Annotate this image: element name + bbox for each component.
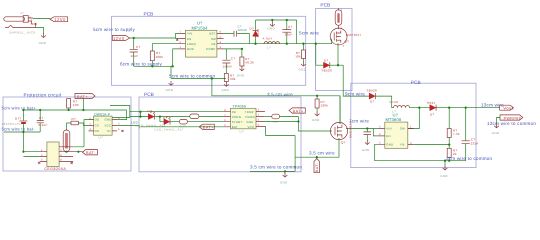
svg-text:OD: OD bbox=[95, 118, 100, 122]
unconnected markers 8205 bbox=[38, 162, 73, 164]
svg-text:FB: FB bbox=[401, 143, 405, 147]
svg-text:TP4056: TP4056 bbox=[233, 104, 247, 108]
IC U5 TP4056 charger bbox=[231, 104, 257, 133]
svg-text:FREQ: FREQ bbox=[187, 42, 196, 46]
svg-text:D?: D? bbox=[324, 59, 328, 63]
transistor Q3 CEG8205A dual fet bbox=[40, 142, 83, 171]
node fet drain junction bbox=[65, 151, 67, 153]
svg-text:C?: C? bbox=[288, 25, 292, 29]
node fb junction bbox=[448, 143, 450, 145]
svg-text:GND: GND bbox=[312, 118, 320, 122]
wire common bus under U1 bbox=[134, 49, 226, 79]
U5 pin stubs bbox=[224, 112, 266, 127]
node vin cap junction bbox=[366, 127, 368, 129]
ground symbol (charger common) bbox=[280, 171, 288, 184]
svg-text:GND: GND bbox=[268, 26, 276, 30]
svg-text:EN: EN bbox=[386, 134, 391, 138]
U1 pin stubs bbox=[179, 34, 224, 49]
svg-text:D?: D? bbox=[148, 109, 152, 113]
svg-text:4.7uH: 4.7uH bbox=[389, 100, 398, 104]
svg-text:U?: U? bbox=[99, 135, 104, 139]
capacitor C2 100nF bootstrap bbox=[224, 25, 250, 44]
wire EN tie bbox=[373, 129, 378, 136]
svg-text:D?: D? bbox=[250, 27, 254, 31]
wire bat+ rail bbox=[23, 109, 126, 111]
wire led2 to jumper2 bbox=[170, 121, 179, 123]
transistor Q1 DMP4047 pmos bbox=[330, 28, 361, 47]
battery BT1 18650 bbox=[2, 110, 28, 132]
svg-text:C?: C? bbox=[231, 56, 235, 60]
svg-text:Q?: Q? bbox=[341, 141, 346, 145]
svg-text:10k: 10k bbox=[295, 55, 301, 59]
svg-text:GND: GND bbox=[39, 41, 47, 45]
wire pwr pad to gnd bbox=[497, 118, 501, 125]
svg-text:5cm wire to bat-: 5cm wire to bat- bbox=[2, 127, 36, 132]
jumper SJ3 chrg bbox=[264, 114, 298, 124]
resistor R4 7.5k fb top bbox=[447, 108, 460, 145]
PCB board outline 4 (protection circuit) bbox=[3, 97, 131, 171]
svg-text:CEG8205A: CEG8205A bbox=[44, 167, 66, 171]
wire VCC riser to bat+ rail bbox=[117, 110, 127, 120]
svg-text:BARREL_JACK: BARREL_JACK bbox=[10, 31, 36, 35]
PCB board outline 3 (boost converter) bbox=[351, 83, 476, 167]
ground symbol (output bleed) bbox=[299, 62, 307, 72]
svg-text:BAT+: BAT+ bbox=[203, 126, 214, 130]
svg-text:30k: 30k bbox=[230, 77, 236, 81]
wire gate rail into pcb2 bbox=[306, 39, 332, 44]
svg-text:GND: GND bbox=[280, 181, 288, 185]
svg-text:3.5 cm wire to common: 3.5 cm wire to common bbox=[250, 164, 302, 169]
svg-text:22uF: 22uF bbox=[471, 141, 479, 145]
svg-text:12V0: 12V0 bbox=[113, 36, 125, 41]
svg-text:PCB: PCB bbox=[144, 12, 154, 18]
wire stdby join bbox=[264, 121, 298, 123]
wire mosfet2 drain down bbox=[295, 138, 339, 157]
svg-text:MT3608: MT3608 bbox=[386, 117, 402, 122]
node SW rail junctions bbox=[254, 43, 256, 45]
IC U1 MP1584 buck converter bbox=[185, 21, 217, 58]
PCB board outline 1 (buck converter) bbox=[111, 16, 305, 85]
wire jack pin1 to 12V0 flag bbox=[33, 18, 50, 20]
wire switched 12V down to boost board bbox=[343, 65, 369, 96]
unconnected pin cross bbox=[35, 23, 37, 25]
svg-text:CS: CS bbox=[95, 124, 100, 128]
supply flag 12V0 (jack output) bbox=[50, 17, 68, 22]
node top rail junction bbox=[271, 19, 273, 21]
svg-text:GND: GND bbox=[386, 143, 393, 147]
wire CE row bbox=[130, 112, 224, 117]
resistor R1 100k FREQ bbox=[150, 44, 178, 67]
node output bleed junction bbox=[302, 43, 304, 45]
svg-text:150nF: 150nF bbox=[223, 64, 233, 68]
svg-text:SW: SW bbox=[211, 37, 216, 41]
svg-text:100k: 100k bbox=[321, 104, 329, 108]
svg-text:100: 100 bbox=[73, 103, 79, 107]
LED D6 bbox=[155, 115, 184, 131]
wire battery minus to fets bbox=[23, 152, 39, 157]
PCB board outline 5 (charger) bbox=[139, 97, 301, 172]
ground symbol (pulldown) bbox=[312, 112, 320, 123]
svg-text:5cm wire: 5cm wire bbox=[299, 31, 319, 36]
diode D1 SS34 freewheel bbox=[250, 20, 260, 44]
svg-text:PCB: PCB bbox=[320, 2, 330, 8]
svg-text:GND: GND bbox=[166, 88, 174, 92]
resistor R9 output bleed bbox=[295, 44, 305, 63]
wire led1 to jumper bbox=[154, 117, 189, 122]
svg-text:GND: GND bbox=[237, 74, 245, 78]
svg-text:DMP4047: DMP4047 bbox=[346, 33, 361, 37]
svg-text:Protection circuit: Protection circuit bbox=[24, 92, 62, 97]
ground symbol (top rail) bbox=[268, 20, 276, 30]
node output cap top junction bbox=[286, 19, 288, 21]
svg-text:100nF: 100nF bbox=[238, 28, 248, 32]
svg-text:9cm wire: 9cm wire bbox=[345, 91, 365, 96]
node common drop junction bbox=[211, 77, 213, 79]
svg-text:BAT-: BAT- bbox=[315, 162, 319, 172]
svg-text:J?: J? bbox=[20, 11, 24, 15]
svg-text:4.7uH: 4.7uH bbox=[263, 37, 272, 41]
capacitor C8 100nF vcc bbox=[37, 110, 48, 132]
resistor R7 cs filter bbox=[67, 117, 89, 130]
svg-text:7.5k: 7.5k bbox=[453, 132, 460, 136]
svg-text:STDBY: STDBY bbox=[232, 120, 243, 124]
wire GND pin to bottom rail bbox=[375, 144, 466, 161]
svg-text:CHRG: CHRG bbox=[232, 115, 241, 119]
LED D5 bbox=[130, 109, 166, 127]
svg-text:0.1uF: 0.1uF bbox=[39, 123, 48, 127]
svg-text:3.5 cm wire: 3.5 cm wire bbox=[309, 151, 335, 156]
wire mosfet2 source up bbox=[339, 96, 341, 124]
svg-text:BT?: BT? bbox=[15, 116, 21, 120]
svg-text:SB520: SB520 bbox=[367, 88, 377, 92]
capacitor C7 22uF boost output bbox=[462, 108, 479, 146]
supply flag PWRPAD bbox=[500, 115, 523, 121]
svg-text:GND: GND bbox=[492, 131, 500, 135]
svg-text:GND: GND bbox=[299, 67, 307, 71]
resistor R3 40.2k feedback bbox=[240, 49, 254, 68]
node buck input junction bbox=[133, 37, 135, 39]
resistor R8 100k pulldown bbox=[315, 96, 328, 113]
svg-text:100k: 100k bbox=[156, 55, 164, 59]
svg-text:OC: OC bbox=[95, 129, 100, 133]
wire diode to inductor bbox=[376, 96, 392, 108]
wire common under charger bbox=[250, 136, 295, 172]
ground symbol (boost common) bbox=[440, 161, 448, 178]
svg-text:GND: GND bbox=[222, 88, 230, 92]
wire gate rail branch down bbox=[316, 44, 324, 65]
svg-text:DMG3415U: DMG3415U bbox=[349, 121, 353, 138]
svg-text:L?: L? bbox=[267, 46, 271, 50]
node fb divider top junction bbox=[448, 107, 450, 109]
svg-text:2cm wire to common: 2cm wire to common bbox=[446, 156, 493, 161]
svg-text:SS34: SS34 bbox=[256, 29, 260, 38]
wire 12V0 flag to VIN/EN of U1 bbox=[130, 34, 179, 39]
wire SW riser bbox=[408, 108, 420, 129]
svg-text:13cm wire to common: 13cm wire to common bbox=[487, 121, 536, 126]
svg-text:TD: TD bbox=[107, 129, 111, 133]
wire top gnd rail bbox=[256, 20, 297, 44]
ground symbol (comp) bbox=[222, 82, 230, 92]
capacitor C4 150nF comp bbox=[222, 49, 242, 74]
svg-text:U?: U? bbox=[240, 129, 245, 133]
svg-text:COMP: COMP bbox=[206, 47, 216, 51]
supply flag BAT+ tp4056 out bbox=[289, 108, 305, 114]
supply flag BAT- bbox=[83, 150, 98, 156]
wire gate riser charger bbox=[298, 117, 332, 132]
svg-text:GND: GND bbox=[187, 47, 194, 51]
svg-text:18650/LiPo: 18650/LiPo bbox=[2, 122, 22, 126]
node comp junction bbox=[241, 48, 243, 50]
jumper SJ1 bbox=[190, 114, 224, 119]
diode D4 SS34 output bbox=[427, 101, 436, 116]
capacitor C6 22uF boost input bbox=[364, 129, 372, 142]
inductor L1 4.7uH bbox=[263, 37, 280, 50]
wire OD gate drive bbox=[73, 120, 93, 147]
node common junction bbox=[172, 65, 174, 67]
wire boost SW rail bbox=[392, 107, 500, 109]
diode D3 SB520 input boost bbox=[367, 88, 377, 103]
svg-text:10uF: 10uF bbox=[131, 54, 139, 58]
svg-text:12V0: 12V0 bbox=[54, 17, 66, 22]
wire drain down bbox=[337, 43, 339, 65]
svg-text:GND: GND bbox=[105, 118, 112, 122]
svg-text:FB: FB bbox=[212, 42, 216, 46]
svg-text:PCB: PCB bbox=[411, 80, 421, 86]
wire BAT row bbox=[141, 126, 224, 128]
wire 5V feed from buck common bbox=[212, 79, 340, 125]
ground symbol (pad) bbox=[492, 124, 500, 136]
svg-text:PROG: PROG bbox=[246, 115, 255, 119]
svg-text:C?: C? bbox=[136, 45, 140, 49]
svg-text:GND: GND bbox=[247, 120, 254, 124]
resistor R2 30k comp bbox=[224, 74, 236, 84]
svg-text:BAT+: BAT+ bbox=[293, 109, 304, 113]
svg-text:VCC: VCC bbox=[248, 125, 255, 129]
node chg junction bbox=[316, 95, 318, 97]
ground symbol (supply common) bbox=[169, 81, 174, 85]
transistor Q4 DMG3415 pmos bbox=[330, 121, 352, 145]
supply flag BAT- vertical bbox=[314, 157, 320, 173]
svg-text:R?: R? bbox=[72, 117, 76, 121]
wire bat pin loop bbox=[266, 127, 296, 136]
resistor R6 100 charge path bbox=[67, 99, 79, 110]
IC U3 MT3608 boost converter bbox=[385, 113, 408, 149]
node SW riser junction bbox=[418, 107, 420, 109]
wire FB to divider bbox=[414, 144, 449, 146]
diode D2 SB520 clamp bbox=[322, 59, 344, 73]
svg-text:EN: EN bbox=[187, 37, 192, 41]
supply flag 12V0 (buck input) bbox=[112, 36, 129, 41]
svg-text:PCB: PCB bbox=[144, 92, 154, 98]
svg-text:CE: CE bbox=[232, 110, 237, 114]
wire mosfet2 to VIN bbox=[346, 128, 378, 130]
svg-text:C?: C? bbox=[39, 116, 43, 120]
U3 pin stubs bbox=[378, 129, 414, 145]
svg-text:3.5 cm wire: 3.5 cm wire bbox=[267, 92, 293, 97]
svg-text:VIN: VIN bbox=[386, 127, 392, 131]
inductor L2 4.7uH bbox=[389, 100, 410, 114]
node bottom rail junction bbox=[448, 160, 450, 162]
svg-text:TEMP: TEMP bbox=[245, 110, 254, 114]
unconnected marker TD bbox=[122, 130, 124, 132]
svg-text:BAT-: BAT- bbox=[86, 151, 96, 155]
svg-text:DW01A-P: DW01A-P bbox=[94, 112, 111, 116]
U4 pin stubs bbox=[89, 120, 118, 131]
fuse PTC protection bbox=[63, 130, 70, 152]
svg-text:5cm wire to common: 5cm wire to common bbox=[169, 73, 216, 78]
svg-text:D?: D? bbox=[430, 112, 434, 116]
ground symbol (fb divider) bbox=[237, 67, 245, 78]
svg-text:BAT: BAT bbox=[232, 125, 238, 129]
svg-text:BAT+: BAT+ bbox=[77, 95, 88, 99]
svg-text:GND: GND bbox=[440, 174, 448, 178]
jumper SJ2 bbox=[179, 119, 223, 128]
capacitor C3 22uF output bbox=[282, 20, 292, 44]
svg-text:Vout: Vout bbox=[503, 106, 514, 111]
svg-text:BST: BST bbox=[210, 32, 216, 36]
svg-text:SS34: SS34 bbox=[427, 101, 436, 105]
svg-text:5cm wire to supply: 5cm wire to supply bbox=[93, 27, 135, 32]
node drain junction bbox=[337, 64, 339, 66]
svg-text:GND: GND bbox=[362, 148, 370, 152]
svg-text:VCC: VCC bbox=[105, 124, 112, 128]
svg-text:22uF: 22uF bbox=[285, 33, 293, 37]
wire SW node rail bbox=[224, 43, 306, 45]
node output cap junction bbox=[465, 107, 467, 109]
wire bat- rail bbox=[4, 132, 40, 157]
PCB board outline 2 (fuse + pmos switch) bbox=[316, 9, 352, 91]
svg-text:MP1584: MP1584 bbox=[192, 25, 209, 30]
svg-text:40.2k: 40.2k bbox=[245, 61, 254, 65]
supply flag Vout bbox=[500, 105, 514, 110]
supply flag BAT+ charger bbox=[199, 124, 214, 129]
svg-text:Q?: Q? bbox=[345, 40, 350, 44]
svg-text:D?: D? bbox=[370, 100, 374, 104]
ground symbol (boost input cap) bbox=[362, 140, 370, 152]
svg-text:SW: SW bbox=[400, 127, 405, 131]
svg-text:6cm wire to supply: 6cm wire to supply bbox=[120, 62, 162, 67]
resistor R5 2k fb bottom bbox=[447, 145, 457, 161]
capacitor C1 10uF input bbox=[130, 38, 141, 66]
supply flag BAT+ top of protection board bbox=[75, 94, 95, 111]
wire led loop bbox=[110, 106, 138, 125]
ground symbol (jack) bbox=[41, 33, 46, 37]
svg-text:VIN: VIN bbox=[187, 32, 193, 36]
wire jack sleeve to ground bbox=[36, 28, 44, 35]
svg-text:D?: D? bbox=[163, 115, 167, 119]
svg-text:SB520: SB520 bbox=[322, 68, 332, 72]
unconnected marker EN bbox=[176, 39, 178, 41]
wire DW01 led drive bbox=[117, 125, 139, 128]
fuse F1 bbox=[335, 8, 342, 29]
connector J1 barrel jack bbox=[4, 16, 36, 28]
IC U4 DW01 protection bbox=[94, 112, 113, 139]
